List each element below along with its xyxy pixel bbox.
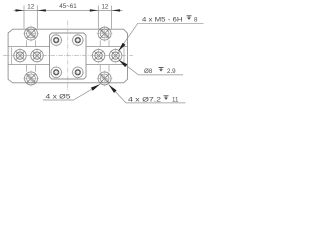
dimension line top [14,9,123,11]
neck bottom-right screw [100,65,109,72]
centerline horizontal main [3,55,133,57]
wire slot end left [11,47,13,63]
extension line d [111,6,113,29]
arrow at 37.3 [37,9,46,11]
center block [50,33,87,79]
wire wing band right [86,47,128,65]
wing hole 2 [29,48,44,63]
screw BR [97,70,113,86]
extension line b [36,6,38,29]
screw BL [23,70,39,86]
screw TR [97,26,113,42]
leader dia7.2 callout [109,85,186,103]
svg-text:45~61: 45~61 [59,3,77,10]
svg-text:11: 11 [172,96,179,103]
arrow at 24 [16,9,25,11]
neck top-right screw [100,40,109,46]
ring hole 3 [50,66,63,79]
svg-text:2.9: 2.9 [167,68,176,75]
svg-text:12: 12 [27,4,34,11]
ring hole 1 [50,34,63,47]
wing hole 1 [12,48,27,63]
svg-text:8: 8 [194,16,198,23]
svg-text:4 x M5 - 6H: 4 x M5 - 6H [142,16,183,23]
wing hole 4 [108,48,123,63]
extension line a [23,6,25,29]
ring hole 2 [71,34,84,47]
body outline [8,29,127,83]
leader dia8 callout [119,60,183,75]
wire wing band left [8,47,49,65]
ring hole 4 [71,66,84,79]
svg-text:12: 12 [101,4,108,11]
arrow at 98.3 [90,9,99,11]
extension line c [97,6,99,29]
svg-text:4 x Ø5: 4 x Ø5 [46,94,72,101]
wire slot end right [123,47,125,63]
centerline vertical main [67,21,69,93]
leader dia5 callout [43,84,100,100]
wing hole 3 [91,48,106,63]
leader M5 callout [118,23,203,51]
svg-text:4 x Ø7.2: 4 x Ø7.2 [128,96,162,103]
screw TL [23,26,39,42]
svg-text:Ø8: Ø8 [144,68,153,75]
neck bottom-left screw [27,65,36,72]
arrow at 111.6 [112,9,121,11]
neck top-left screw [27,40,36,46]
